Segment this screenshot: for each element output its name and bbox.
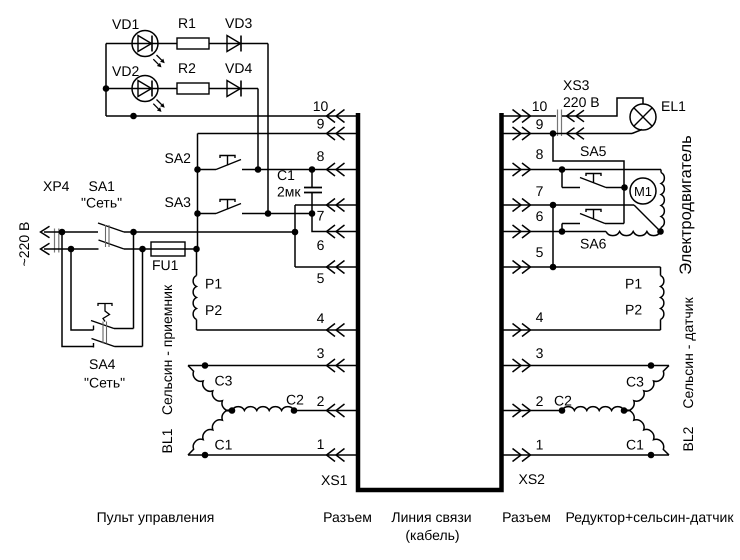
svg-text:10: 10 [313,98,329,114]
wire pin1 right [503,454,669,456]
svg-text:P1: P1 [625,276,642,292]
svg-text:FU1: FU1 [152,257,179,273]
svg-text:7: 7 [536,183,544,199]
winding C2 BL1 [232,407,294,411]
svg-text:5: 5 [317,270,325,286]
resistor R1 [177,38,209,49]
wire motor diagonal lead [634,205,661,232]
wire pin3 right [503,365,669,367]
svg-text:SA5: SA5 [580,143,607,159]
wire SA6 output up to M1 [623,188,625,224]
connector XS1 pin contacts [327,110,336,123]
node junction C1top/pin8 [309,166,316,173]
LED VD1 [132,31,165,68]
svg-text:EL1: EL1 [661,98,686,114]
svg-text:"Сеть": "Сеть" [81,195,122,211]
winding M1 field right [661,170,665,232]
wire pin1 to connector [188,454,356,456]
winding P1P2 BL1 [193,249,196,330]
capacitor C1 [304,170,322,214]
winding P1P2 BL2 [661,267,664,330]
wire vertical FU1out-SA3-SA2-pin9 [197,134,199,250]
node junction row2-left [103,85,110,92]
svg-text:1: 1 [536,437,544,453]
node junction pin10/SA1 branch [130,113,137,120]
node junction SA1out/pin7/pin5 [292,229,299,236]
svg-text:6: 6 [317,237,325,253]
wire pin10 right to XS3 [503,115,556,117]
node junction VD3/SA3out [265,210,272,217]
node terminal C1 BL1 [202,452,209,459]
switch SA1 mechanical link [105,225,107,247]
winding C1 BL2 [624,410,669,455]
svg-text:VD3: VD3 [225,15,252,31]
wire XP4 pin1 to SA1 [44,231,98,233]
svg-text:SA4: SA4 [89,356,116,372]
wire pin8 right to field coil [503,169,661,171]
wire SA2 output (pin8 net) [242,169,356,171]
svg-text:10: 10 [532,98,548,114]
connector XP4 pin2 chevron [41,243,50,255]
svg-text:Линия связи: Линия связи [391,509,471,525]
svg-text:4: 4 [536,309,544,325]
svg-text:220 В: 220 В [563,94,600,110]
cable (линия связи) thick outline [358,113,502,490]
wire vertical VD4 output [257,89,259,170]
svg-text:R1: R1 [178,15,196,31]
wire SA1 pole2 output to FU1 [124,248,151,250]
wire pin7-pin5 vertical [294,205,296,267]
svg-text:1: 1 [317,436,325,452]
lamp EL1 [630,104,656,130]
wire SA1 pole1 output [124,231,295,233]
connector XS3 pin1 chevrons [567,110,575,122]
svg-text:Редуктор+сельсин-датчик: Редуктор+сельсин-датчик [566,509,735,525]
switch SA4 latching actuator [98,304,112,322]
svg-text:VD2: VD2 [112,63,139,79]
wire pin7-pin5 vertical right [552,205,554,267]
svg-text:XS2: XS2 [519,471,546,487]
svg-text:3: 3 [536,345,544,361]
svg-text:2мк: 2мк [277,184,301,200]
connector XP4 pin1 chevron [41,226,50,238]
svg-text:BL2: BL2 [680,426,696,451]
node junction M1 left terminal [621,184,628,191]
svg-text:9: 9 [317,116,325,132]
connector XP4 interface bars [54,229,56,253]
svg-text:SA6: SA6 [580,236,607,252]
svg-text:XS3: XS3 [563,77,590,93]
svg-text:2: 2 [317,393,325,409]
switch SA3 [194,200,241,217]
node junction wire2/SA4 branch [68,246,75,253]
svg-text:8: 8 [317,148,325,164]
wire row1 VD1-R1-VD3 [106,43,268,45]
diode VD3 [227,36,241,52]
svg-text:XS1: XS1 [321,472,348,488]
svg-text:R2: R2 [178,60,196,76]
switch SA4 upper pole [91,321,134,331]
resistor R2 [177,83,209,94]
wire pin9 to lamp bottom [632,130,642,134]
node star point BL1 [229,407,236,414]
svg-text:~220 В: ~220 В [16,222,32,267]
svg-text:"Сеть": "Сеть" [84,375,125,391]
svg-text:7: 7 [317,208,325,224]
svg-text:SA3: SA3 [165,194,192,210]
switch SA2 [194,156,241,173]
wire pin7 to connector [295,204,356,206]
svg-text:SA1: SA1 [89,178,116,194]
switch SA4 mechanical link [102,322,104,344]
wire row2 VD2-R2-VD4 [106,88,258,90]
svg-text:(кабель): (кабель) [405,527,459,543]
svg-text:C1: C1 [277,167,295,183]
node terminal C2 BL1 [291,407,298,414]
node junction VD4/SA2out [255,166,262,173]
svg-text:XP4: XP4 [43,178,70,194]
svg-text:3: 3 [317,345,325,361]
svg-text:C1: C1 [215,437,233,453]
svg-text:C2: C2 [554,393,572,409]
svg-text:Сельсин - приемник: Сельсин - приемник [159,284,175,415]
svg-text:5: 5 [536,244,544,260]
wire XS3 to lamp EL1 [562,98,643,116]
motor M1 [630,178,656,204]
node junction SA1out/vertical [130,229,137,236]
wire XP4 pin2 branch down to SA4 [71,249,94,330]
svg-text:9: 9 [536,116,544,132]
wire pin5 elbow [295,266,356,268]
connector XS3 interface bars [557,110,559,137]
node junction wire2/SA4 output [139,246,146,253]
wire pin5 right [503,266,661,268]
svg-text:8: 8 [536,146,544,162]
wire pin6 right [503,231,606,233]
wire SA4 upper output up to wire1 [133,232,135,329]
node junction C1bottom/SA3out [309,210,316,217]
svg-text:Сельсин - датчик: Сельсин - датчик [680,297,696,409]
switch SA5 [562,170,624,188]
wire pin4 right [503,329,661,331]
node star point BL2 [621,407,628,414]
wire XP4 pin1 branch down to SA4 [62,232,94,347]
svg-text:Разъем: Разъем [502,509,551,525]
svg-text:C1: C1 [626,437,644,453]
wire pin4 to connector [197,329,357,331]
node terminal C2 BL2 [559,407,566,414]
svg-text:C3: C3 [626,374,644,390]
wire pin6 elbow [312,214,356,232]
winding C1 BL1 [188,410,232,455]
node terminal C1 BL2 [648,452,655,459]
svg-text:C2: C2 [286,392,304,408]
winding C3 BL2 [624,366,669,411]
diode VD4 [227,81,241,97]
wire pin9 to connector [198,133,357,135]
wire SA3 output [242,213,312,215]
node junction pin6/SA6 [559,228,566,235]
winding C2 BL2 [562,407,624,411]
LED VD2 [132,76,165,112]
wire pin2 right [503,410,562,412]
node terminal C3 BL2 [648,362,655,369]
svg-text:P1: P1 [205,276,222,292]
node terminal C3 BL1 [202,362,209,369]
node junction wire1/SA4 branch [59,229,66,236]
node junction FU1 output [193,246,200,253]
node junction pin7/branch [550,202,557,209]
svg-text:SA2: SA2 [165,150,192,166]
svg-text:6: 6 [536,208,544,224]
wire pin2 to connector [294,410,356,412]
svg-text:4: 4 [317,310,325,326]
wire pin10 net (LED common) to connector [106,115,356,117]
connector XS3 pin2 chevrons [567,128,575,140]
wire pin9 branch to M1 [553,134,624,188]
svg-text:2: 2 [536,393,544,409]
node junction pin8/SA5 [559,166,566,173]
connector XS2 pin contacts [513,110,522,123]
wire pin9 right [503,133,632,135]
winding M1 field bottom [606,232,661,236]
wire vertical VD3 output [267,44,269,214]
node junction pin5 branch [550,264,557,271]
node junction motor windings common [657,228,664,235]
svg-text:M1: M1 [634,184,652,199]
wire pin3 to connector [188,365,356,367]
switch SA6 [562,210,624,232]
wire XP4 pin2 to SA1 [44,248,99,250]
svg-text:VD4: VD4 [225,60,252,76]
wire SA4 lower output up to wire2 [142,249,144,347]
svg-text:Разъем: Разъем [323,509,372,525]
svg-text:P2: P2 [625,302,642,318]
wire pin7 right to motor [503,204,634,206]
fuse FU1 [151,242,197,256]
svg-text:C3: C3 [215,373,233,389]
svg-text:BL1: BL1 [159,428,175,453]
svg-text:P2: P2 [205,302,222,318]
switch SA4 lower pole [92,339,143,348]
node junction pin9/SA5 branch [550,130,557,137]
svg-text:Электродвигатель: Электродвигатель [677,135,695,274]
wire left vertical LED block [105,44,107,117]
svg-text:Пульт управления: Пульт управления [97,509,215,525]
winding C3 BL1 [188,366,232,411]
switch SA1 pole2 arm [99,240,125,249]
switch SA1 pole1 arm [98,223,124,232]
svg-text:VD1: VD1 [112,16,139,32]
